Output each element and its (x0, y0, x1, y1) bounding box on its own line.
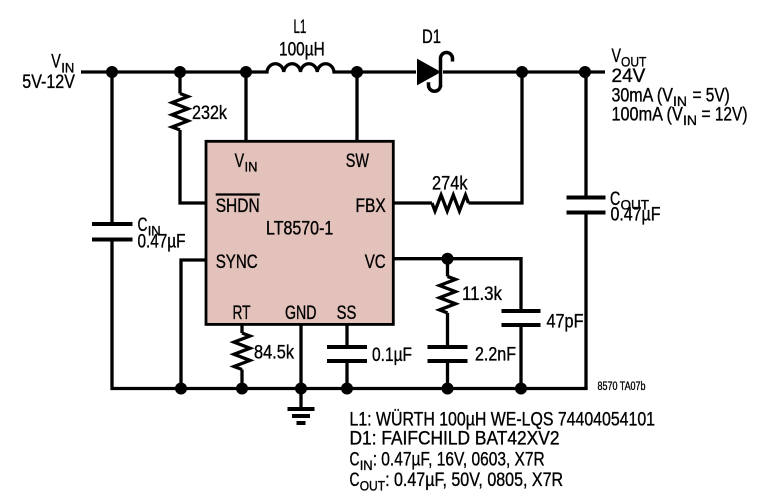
svg-text:C: C (350, 470, 360, 491)
node FBX top junction (516, 66, 528, 78)
svg-text:30mA (V: 30mA (V (612, 86, 674, 107)
svg-text:SS: SS (337, 303, 357, 324)
node SYNC rail junction (175, 383, 187, 395)
svg-text:RT: RT (233, 303, 251, 324)
svg-text:0.47µF: 0.47µF (138, 232, 186, 253)
capacitor CIN (92, 215, 186, 253)
node VC junction (442, 253, 454, 265)
svg-text:= 12V): = 12V) (702, 105, 748, 126)
svg-text:L1: L1 (294, 17, 307, 38)
svg-text:0.47µF: 0.47µF (611, 205, 661, 226)
svg-text:IN: IN (683, 112, 697, 128)
wire VC line (393, 259, 521, 309)
svg-text:84.5k: 84.5k (254, 343, 294, 364)
wire right riser lower (584, 215, 587, 391)
svg-text:D1: D1 (422, 27, 441, 48)
node 2.2nF rail junction (442, 383, 454, 395)
svg-text:232k: 232k (192, 103, 227, 124)
svg-text:SW: SW (346, 151, 369, 172)
wire VIN pin (244, 72, 247, 141)
svg-text:SYNC: SYNC (216, 252, 258, 273)
node L1 right junction (351, 66, 363, 78)
diode D1 (418, 27, 453, 91)
resistor 84.5k (234, 324, 294, 388)
svg-text:V: V (612, 46, 622, 67)
svg-text:GND: GND (285, 303, 317, 324)
wire left rail lower (110, 242, 113, 388)
svg-text:8570 TA07b: 8570 TA07b (598, 381, 646, 393)
svg-text:: 0.47µF, 50V, 0805, X7R: : 0.47µF, 50V, 0805, X7R (385, 470, 563, 491)
resistor 11.3k (440, 259, 503, 345)
node VOUT junction (579, 66, 591, 78)
label VOUT (612, 46, 748, 128)
node L1 left junction (240, 66, 252, 78)
svg-text:C: C (350, 449, 360, 470)
svg-text:LT8570-1: LT8570-1 (266, 219, 333, 240)
wire left rail (110, 72, 113, 222)
svg-text:IN: IN (360, 457, 373, 473)
ground (288, 409, 315, 423)
inductor L1 (246, 17, 357, 72)
label VIN (22, 52, 75, 94)
svg-text:2.2nF: 2.2nF (475, 345, 516, 366)
svg-text:100µH: 100µH (279, 40, 325, 61)
capacitor 0.1uF SS (327, 324, 412, 388)
svg-text:V: V (235, 151, 245, 172)
capacitor COUT (567, 189, 661, 226)
node GND rail junction (295, 383, 307, 395)
wire SW pin (355, 72, 358, 141)
note line 4 (350, 470, 564, 494)
svg-text:= 5V): = 5V) (693, 86, 730, 107)
capacitor 2.2nF (428, 345, 517, 389)
svg-text:11.3k: 11.3k (462, 284, 502, 305)
resistor 232k (172, 72, 227, 203)
svg-text:OUT: OUT (360, 477, 386, 493)
node SS rail junction (341, 383, 353, 395)
wire GND pin (299, 324, 302, 407)
svg-text:24V: 24V (612, 66, 646, 87)
wire SYNC (181, 260, 206, 389)
node RT rail junction (236, 383, 248, 395)
note line 3 (350, 449, 545, 473)
svg-text:D1: FAIFCHILD BAT42XV2: D1: FAIFCHILD BAT42XV2 (350, 429, 560, 450)
wire top rail (81, 70, 605, 73)
svg-text:VC: VC (365, 252, 386, 273)
IC U1 LT8570-1 (206, 141, 393, 324)
svg-text:V: V (51, 52, 61, 73)
node VIN junction (106, 66, 118, 78)
capacitor 47pF (502, 311, 584, 389)
wire right riser upper (584, 72, 587, 196)
resistor 274k (393, 72, 522, 211)
wire bottom rail (110, 387, 587, 390)
svg-text:5V-12V: 5V-12V (22, 72, 75, 93)
svg-text:IN: IN (245, 159, 258, 175)
node 47pF rail junction (515, 383, 527, 395)
svg-text:47pF: 47pF (547, 312, 584, 333)
svg-text:FBX: FBX (356, 196, 386, 217)
svg-text:274k: 274k (432, 174, 468, 195)
svg-text:100mA (V: 100mA (V (612, 105, 684, 126)
svg-text:0.1µF: 0.1µF (372, 345, 412, 366)
svg-text:: 0.47µF, 16V, 0603, X7R: : 0.47µF, 16V, 0603, X7R (373, 449, 545, 470)
node 232k top junction (174, 66, 186, 78)
svg-text:SHDN: SHDN (216, 196, 260, 217)
